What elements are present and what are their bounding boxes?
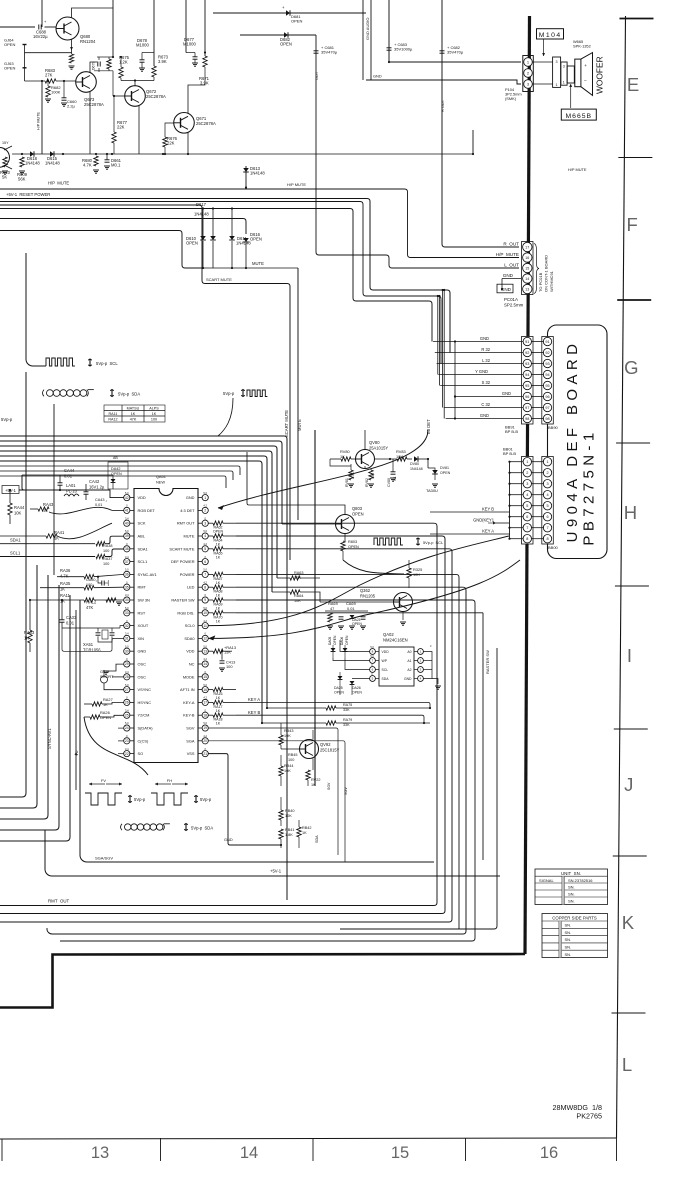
crystal XA51 [62,627,120,629]
frame row ticks [619,18,653,20]
speaker W665 [575,59,581,87]
svg-text:M0.1: M0.1 [111,163,121,168]
svg-text:SCL1: SCL1 [10,551,21,556]
waveform SDA top [43,390,45,397]
wire Q671 emitter to rail [162,153,164,155]
svg-text:GND: GND [503,273,514,278]
frame bottom border [0,1138,617,1139]
svg-text:5.0: 5.0 [125,529,129,533]
svg-text:15: 15 [203,675,207,679]
diode D611 [229,236,235,240]
svg-text:10K: 10K [371,472,375,479]
svg-text:OPEN: OPEN [348,545,359,549]
wire riser bundle to BB91 [437,296,439,375]
svg-text:R 32: R 32 [481,347,490,352]
svg-text:1K: 1K [216,722,221,726]
svg-text:13: 13 [203,649,207,653]
wire QV80 emitter up [364,430,366,450]
resistor RV81 [349,470,353,480]
resistor RA44 [8,503,12,515]
svg-text:DV80: DV80 [410,462,419,466]
svg-text:Q362: Q362 [360,588,371,593]
resistor RV82 [369,470,373,480]
svg-text:KEY A: KEY A [482,529,494,534]
svg-text:U904A DEF BOARD: U904A DEF BOARD [564,340,581,543]
svg-text:17: 17 [203,701,207,705]
diode D612 [210,236,216,240]
svg-text:1.8K: 1.8K [285,833,293,837]
svg-text:91: 91 [545,340,549,344]
svg-text:93: 93 [525,362,529,366]
wire hsync curve [84,717,148,775]
svg-text:CA43 ⌟: CA43 ⌟ [95,498,108,502]
svg-text:RGB DET: RGB DET [138,508,156,513]
svg-text:1: 1 [546,460,548,464]
svg-text:1N4148: 1N4148 [250,171,265,176]
wire pin2 4:3DET curve [412,302,428,459]
resistor R671 [203,56,207,67]
svg-text:COPPER SIDE PARTS: COPPER SIDE PARTS [552,916,597,921]
svg-text:RA44: RA44 [14,505,25,510]
svg-text:41: 41 [125,509,129,513]
wire rail 230 [0,231,203,269]
wire Q672 base [113,95,125,97]
svg-text:RA35: RA35 [60,581,71,586]
svg-text:RA12: RA12 [108,418,117,422]
svg-text:16: 16 [203,688,207,692]
waveform SCL top [46,358,75,366]
svg-text:33K: 33K [343,708,350,712]
waveform SCL mid [374,538,403,545]
resistor RA36 [57,576,84,578]
svg-text:96: 96 [545,395,549,399]
svg-text:1: 1 [555,83,557,87]
svg-text:SIGNAL: SIGNAL [539,878,554,883]
svg-text:16V1.2µ: 16V1.2µ [89,484,105,489]
svg-text:SN.: SN. [565,930,572,935]
svg-text:18: 18 [203,713,207,717]
svg-text:3: 3 [563,65,565,69]
svg-text:1K: 1K [54,535,59,540]
wire top vertical 113 [112,0,114,57]
wire base node [330,459,351,466]
svg-text:7: 7 [546,526,548,530]
svg-text:G: G [624,357,638,378]
wire L OUT [316,35,519,268]
svg-text:GND: GND [224,837,233,842]
svg-text:36: 36 [125,573,129,577]
svg-text:RMT: RMT [138,585,147,590]
svg-text:15: 15 [391,1144,409,1162]
svg-text:F: F [626,214,637,235]
svg-text:5.0: 5.0 [125,606,129,610]
wire VD line [75,610,77,790]
svg-text:47K: 47K [86,605,94,610]
svg-text:10K: 10K [14,510,22,515]
wires QA02 left [340,640,370,652]
svg-text:3.4: 3.4 [125,708,129,712]
wire scart mute vertical [202,268,204,284]
svg-text:L OUT: L OUT [504,263,519,268]
svg-text:S(DATA): S(DATA) [138,726,154,731]
svg-text:MUTE: MUTE [252,261,264,266]
svg-text:VDD: VDD [138,495,146,500]
svg-text:GND: GND [373,74,382,79]
wire sga sgv corner [80,600,434,862]
svg-text:R OUT: R OUT [440,99,445,112]
svg-text:1N4148: 1N4148 [45,161,60,166]
svg-text:WP: WP [382,659,388,663]
wire comb BB01 [509,462,511,539]
svg-text:MUTE: MUTE [183,534,194,539]
svg-text:SYNC-AV1: SYNC-AV1 [47,728,52,749]
transistor Q672 [125,86,146,107]
svg-text:97: 97 [525,406,529,410]
svg-text:RA12: RA12 [86,600,97,605]
svg-text:39: 39 [125,534,129,538]
resistor RA75 [267,707,326,709]
svg-text:E3 DET: E3 DET [426,419,431,434]
wire gnd rail 208 [0,209,432,342]
capacitor CA44 [58,482,63,484]
svg-text:21: 21 [203,752,207,756]
svg-text:10K: 10K [285,814,292,818]
svg-text:2.2µ: 2.2µ [67,104,76,109]
svg-text:ON CONT-1 BOARD: ON CONT-1 BOARD [544,255,549,292]
capacitor C683 [389,0,521,62]
svg-text:D679: D679 [92,62,96,70]
svg-text:4.2: 4.2 [203,657,207,661]
svg-text:SN.: SN. [565,937,572,942]
svg-text:A2: A2 [407,668,411,672]
svg-text:14: 14 [240,1144,258,1162]
wire Q672 emitter [138,106,140,155]
IC right pin resistors [208,522,213,524]
IC QA02 box [379,647,414,686]
svg-text:RA11: RA11 [60,593,71,598]
wire gnd pin30 [108,664,124,671]
svg-text:5Vp-p SDA: 5Vp-p SDA [118,392,140,397]
wire top rail [22,474,113,476]
svg-text:Y2/CM: Y2/CM [138,713,150,718]
svg-text:OPEN: OPEN [280,42,292,47]
transistor QV92 [300,740,319,759]
svg-text:28: 28 [125,675,129,679]
svg-text:4.2: 4.2 [203,580,207,584]
svg-text:31: 31 [125,637,129,641]
svg-text:SGA/SGV: SGA/SGV [95,856,113,861]
svg-text:–: – [584,79,587,84]
wire BB90-BB00 link [547,424,549,457]
wire R OUT [442,0,519,247]
wire QV92 col [312,730,314,740]
svg-text:SN.: SN. [565,923,572,928]
svg-text:95: 95 [525,384,529,388]
waveform FH [155,783,171,785]
resistor R325 [407,568,411,578]
resistor RA79 [262,722,326,724]
svg-text:+5V-1: +5V-1 [270,869,282,874]
svg-text:OPEN: OPEN [4,42,15,47]
svg-text:RA36: RA36 [60,568,71,573]
svg-text:47: 47 [330,606,334,611]
svg-text:1K: 1K [60,586,65,591]
svg-text:10K: 10K [413,572,420,577]
svg-text:RA38: RA38 [103,544,113,548]
svg-text:SW 3N: SW 3N [138,598,151,603]
power label +5V-1 [2,486,19,494]
svg-text:22: 22 [125,752,129,756]
svg-text:1N4148: 1N4148 [194,212,209,217]
capacitor CA33 [60,619,65,621]
svg-text:1K: 1K [302,831,307,835]
resistor R679 [107,59,111,69]
svg-text:CA33: CA33 [66,615,77,620]
board label box U904A DEF BOARD [548,325,608,559]
svg-text:MATSU: MATSU [127,407,140,411]
svg-text:1: 1 [204,496,206,500]
diode DA42 [108,462,128,489]
svg-text:SCART MUTE: SCART MUTE [206,277,232,282]
svg-text:5.0: 5.0 [203,683,207,687]
jumper GJ19 [101,676,108,683]
svg-text:SCART MUTE: SCART MUTE [169,546,195,551]
svg-text:SCK: SCK [138,521,146,526]
svg-text:5Vp-p: 5Vp-p [1,417,13,422]
wire raster sw vertical [340,648,497,929]
IC QA02 pins [370,649,376,655]
svg-text:XOUT: XOUT [138,623,149,628]
wires QA02 right [423,652,432,679]
svg-text:22K: 22K [117,125,125,130]
svg-text:42: 42 [125,496,129,500]
svg-text:+5V-1 RESET POWER: +5V-1 RESET POWER [6,192,50,197]
svg-text:13: 13 [91,1144,109,1162]
svg-text:TA30U: TA30U [426,488,438,493]
svg-text:GND(KEY1: GND(KEY1 [473,518,495,523]
wire xin [62,628,124,651]
svg-text:GND AUDIO: GND AUDIO [365,18,370,40]
capacitor CV80 [391,471,396,473]
wire sga down [208,741,345,862]
svg-text:BP B-B: BP B-B [505,429,518,434]
svg-text:CA30⌟: CA30⌟ [86,578,97,582]
svg-text:27: 27 [125,688,129,692]
svg-text:16: 16 [540,1144,558,1162]
svg-text:16: 16 [525,256,529,260]
drawing frame right border [617,16,626,1138]
svg-text:3.4: 3.4 [125,670,129,674]
diode D618 [30,151,34,157]
svg-text:FV: FV [101,778,106,783]
svg-text:ALPS: ALPS [149,407,159,411]
svg-text:CV80: CV80 [387,478,391,487]
svg-text:100: 100 [226,664,233,669]
svg-text:SCL0: SCL0 [185,623,196,628]
svg-text:S 32: S 32 [482,380,491,385]
svg-text:GND: GND [480,413,489,418]
svg-text:NM24C16EN: NM24C16EN [383,637,408,642]
svg-text:6: 6 [546,515,548,519]
node junction [472,130,474,154]
svg-text:CA42: CA42 [89,479,100,484]
svg-text:8: 8 [526,537,528,541]
svg-text:0.01: 0.01 [95,503,102,507]
svg-text:H/P MUTE: H/P MUTE [37,111,41,130]
svg-text:7: 7 [204,573,206,577]
svg-text:D617: D617 [196,202,207,207]
svg-text:1K: 1K [340,454,345,459]
svg-text:WOOFER: WOOFER [595,56,605,94]
svg-text:3: 3 [526,482,528,486]
svg-text:4.7K: 4.7K [83,163,92,168]
waveform FV [89,783,105,785]
svg-text:RMT OUT: RMT OUT [177,521,195,526]
diode D613 [245,166,247,188]
capacitor C661 [105,159,110,161]
wire Q803 collector [315,505,345,515]
svg-text:AB: AB [113,456,118,460]
svg-text:KEY-A: KEY-A [183,700,195,705]
svg-text:(SMK): (SMK) [505,96,517,101]
svg-text:A0: A0 [407,650,411,654]
wire GND rail [366,80,521,84]
capacitor C681 [314,50,319,52]
svg-text:GND: GND [480,336,489,341]
svg-text:K: K [622,912,635,933]
svg-text:3.4: 3.4 [125,632,129,636]
connector PC01A pins [523,242,532,251]
svg-text:3.4: 3.4 [125,593,129,597]
svg-text:92: 92 [545,351,549,355]
wire rmt out rail [0,523,437,905]
svg-text:17: 17 [525,245,529,249]
svg-text:PB7275N-1: PB7275N-1 [581,428,598,545]
svg-text:SYNC-AV1: SYNC-AV1 [138,572,157,577]
svg-text:15K: 15K [224,650,231,655]
wire left verticals to nest [0,372,26,797]
svg-text:I: I [627,645,632,666]
svg-text:DA26: DA26 [352,686,361,690]
wire SCL0 curve [208,536,509,626]
svg-text:30: 30 [125,649,129,653]
resistor RA43 [38,507,49,511]
wire RESET POWER rail A [0,199,450,353]
svg-text:SCART MUTE: SCART MUTE [284,410,289,437]
svg-text:OPEN: OPEN [4,66,15,71]
svg-text:VSYNC: VSYNC [138,687,152,692]
svg-text:RN1204: RN1204 [80,39,96,44]
table UNIT SN [535,869,608,905]
IC QA01 right pins [202,495,208,501]
svg-text:1: 1 [563,81,565,85]
diode D616 [243,238,249,242]
svg-text:SN.: SN. [565,952,572,957]
capacitor C660 [62,97,67,99]
svg-text:SDA: SDA [382,677,390,681]
table COPPER SIDE PARTS [542,914,608,958]
diode D682 [240,34,316,36]
svg-text:RV82: RV82 [365,478,369,487]
svg-text:91: 91 [525,340,529,344]
svg-text:SN.: SN. [565,945,572,950]
svg-text:38: 38 [125,547,129,551]
svg-text:26: 26 [125,701,129,705]
svg-text:XIN: XIN [138,636,145,641]
svg-text:1K: 1K [216,607,221,611]
svg-text:1K: 1K [103,702,108,707]
svg-text:Y GND: Y GND [475,369,488,374]
svg-text:100: 100 [288,758,294,762]
svg-text:BB90: BB90 [548,425,559,430]
svg-text:4: 4 [204,534,206,538]
svg-text:98: 98 [545,417,549,421]
svg-text:RB45: RB45 [288,753,298,757]
connector P104 [523,56,534,92]
svg-text:SDA1: SDA1 [10,538,21,543]
svg-text:19: 19 [203,726,207,730]
svg-text:VDD: VDD [382,650,390,654]
svg-text:M104: M104 [539,32,562,39]
svg-text:R803: R803 [348,540,357,544]
svg-text:GND: GND [186,495,195,500]
svg-text:2: 2 [204,509,206,513]
svg-text:RGB DIS.: RGB DIS. [177,610,194,615]
wire vss down [208,754,281,845]
svg-text:RA63: RA63 [294,571,304,575]
svg-text:5Vp-p SDA: 5Vp-p SDA [191,826,213,831]
svg-text:32: 32 [125,624,129,628]
svg-text:25C2878A: 25C2878A [146,94,166,99]
wire H/P MUTE rail [0,189,519,258]
svg-text:11: 11 [203,624,207,628]
svg-text:9: 9 [204,598,206,602]
svg-text:5.0: 5.0 [125,568,129,572]
svg-text:OPEN: OPEN [334,691,344,695]
svg-text:Q803: Q803 [352,506,363,511]
waveform SDA bottom [121,824,123,830]
svg-text:KEY-B: KEY-B [183,713,195,718]
svg-text:OPEN: OPEN [345,635,349,645]
svg-text:RA41: RA41 [54,530,65,535]
svg-text:5.0: 5.0 [125,491,129,495]
resistor RA27 [92,702,102,706]
wire mute rail [12,153,473,155]
resistor R609 [20,157,24,167]
svg-text:FH: FH [167,778,172,783]
svg-text:OSC: OSC [138,662,147,667]
svg-text:WITHMC91: WITHMC91 [549,270,554,292]
wire heavy mid vertical [314,430,316,786]
svg-text:34: 34 [125,598,129,602]
svg-text:5.0: 5.0 [203,644,207,648]
IC QA01 outline [134,489,198,763]
svg-text:RASTER SW: RASTER SW [171,598,194,603]
svg-text:RA75: RA75 [343,703,352,707]
svg-text:H/P MUTE: H/P MUTE [287,182,306,187]
svg-text:SO: SO [138,751,144,756]
svg-text:1K: 1K [216,619,221,623]
svg-text:SN.: SN. [568,898,575,903]
svg-text:RA43: RA43 [43,502,54,507]
svg-text:0.1: 0.1 [393,476,397,481]
wire Q362 base [320,601,394,603]
svg-text:LED: LED [187,585,195,590]
svg-text:KEY B: KEY B [482,507,494,512]
svg-text:KEY B: KEY B [248,710,260,715]
svg-text:SGV: SGV [186,726,195,731]
svg-text:POWER: POWER [180,572,195,577]
